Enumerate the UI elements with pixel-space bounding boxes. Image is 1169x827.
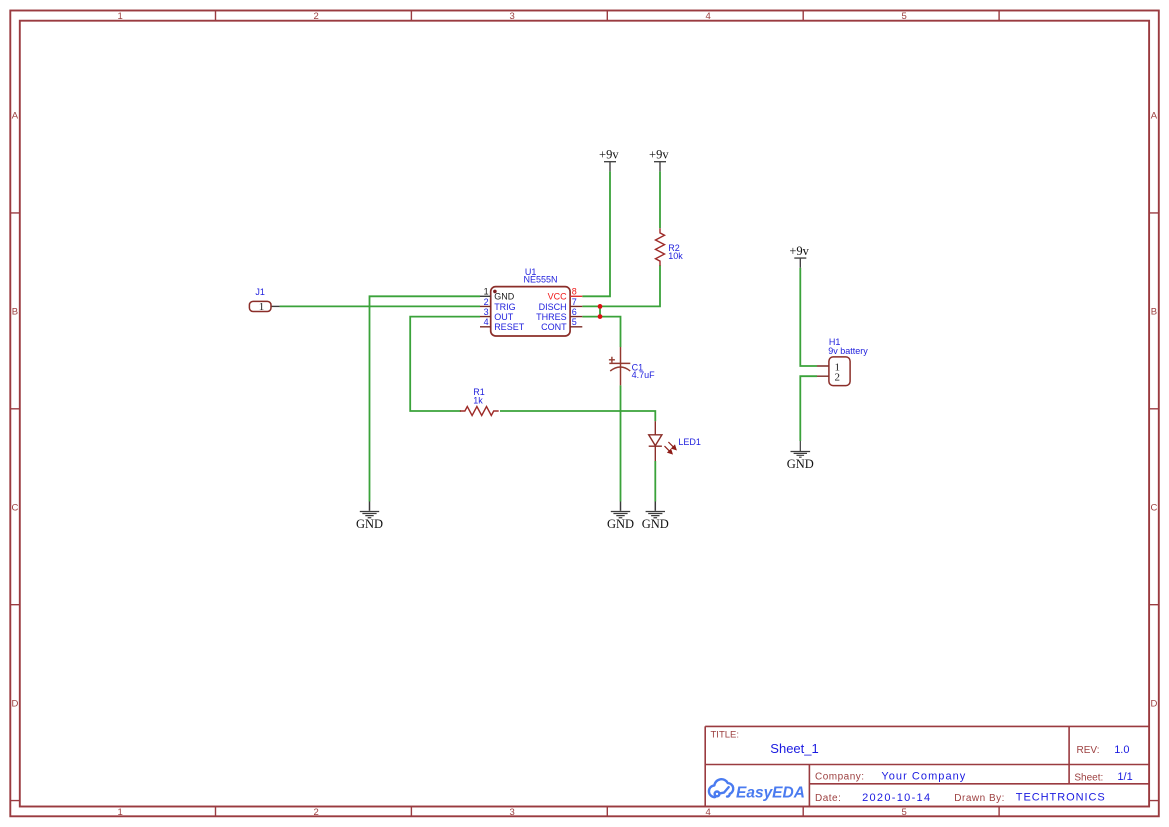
svg-text:Sheet:: Sheet:: [1074, 773, 1103, 784]
svg-text:B: B: [12, 306, 18, 317]
svg-text:A: A: [12, 110, 19, 121]
svg-text:C: C: [11, 502, 18, 513]
svg-text:Your Company: Your Company: [881, 771, 966, 783]
svg-text:Company:: Company:: [815, 772, 865, 783]
svg-text:GND: GND: [787, 457, 814, 471]
svg-text:A: A: [1151, 110, 1158, 121]
svg-text:Drawn By:: Drawn By:: [954, 793, 1005, 804]
svg-text:J1: J1: [255, 287, 265, 297]
svg-text:10k: 10k: [668, 251, 683, 261]
svg-text:2: 2: [834, 372, 840, 384]
svg-text:LED1: LED1: [678, 437, 701, 447]
svg-text:TRIG: TRIG: [494, 302, 516, 312]
svg-text:2: 2: [314, 807, 319, 818]
svg-text:+9v: +9v: [599, 148, 619, 162]
svg-text:2020-10-14: 2020-10-14: [862, 792, 931, 804]
svg-text:THRES: THRES: [536, 312, 567, 322]
svg-text:1: 1: [484, 287, 489, 297]
svg-text:1/1: 1/1: [1117, 771, 1132, 783]
svg-text:1: 1: [118, 807, 123, 818]
svg-text:B: B: [1151, 306, 1157, 317]
svg-text:6: 6: [572, 307, 577, 317]
svg-text:5: 5: [572, 317, 577, 327]
svg-text:CONT: CONT: [541, 322, 567, 332]
svg-text:TITLE:: TITLE:: [711, 730, 740, 741]
svg-text:1.0: 1.0: [1114, 744, 1129, 756]
svg-text:D: D: [11, 698, 18, 709]
svg-text:C: C: [1150, 502, 1157, 513]
svg-text:1: 1: [259, 301, 265, 313]
svg-text:Date:: Date:: [815, 793, 841, 804]
svg-text:3: 3: [484, 307, 489, 317]
svg-text:2: 2: [484, 297, 489, 307]
svg-text:DISCH: DISCH: [539, 302, 567, 312]
svg-text:1: 1: [118, 11, 123, 22]
svg-text:4.7uF: 4.7uF: [632, 370, 656, 380]
svg-text:4: 4: [484, 317, 489, 327]
svg-text:8: 8: [572, 287, 577, 297]
svg-text:OUT: OUT: [494, 312, 514, 322]
svg-text:GND: GND: [607, 517, 634, 531]
svg-text:3: 3: [510, 11, 515, 22]
svg-text:D: D: [1150, 698, 1157, 709]
svg-text:Sheet_1: Sheet_1: [770, 741, 818, 756]
svg-text:GND: GND: [494, 292, 515, 302]
svg-text:NE555N: NE555N: [524, 275, 558, 285]
svg-text:EasyEDA: EasyEDA: [736, 785, 805, 802]
svg-text:1k: 1k: [473, 396, 483, 406]
svg-text:5: 5: [902, 807, 907, 818]
svg-text:5: 5: [902, 11, 907, 22]
svg-text:+9v: +9v: [789, 244, 809, 258]
svg-text:TECHTRONICS: TECHTRONICS: [1016, 791, 1106, 803]
svg-text:4: 4: [706, 11, 711, 22]
svg-text:GND: GND: [356, 517, 383, 531]
svg-text:REV:: REV:: [1077, 745, 1100, 756]
svg-text:2: 2: [314, 11, 319, 22]
svg-text:RESET: RESET: [494, 322, 525, 332]
svg-text:GND: GND: [642, 517, 669, 531]
svg-text:VCC: VCC: [548, 292, 568, 302]
svg-text:3: 3: [510, 807, 515, 818]
svg-text:4: 4: [706, 807, 711, 818]
svg-text:7: 7: [572, 297, 577, 307]
svg-text:9v battery: 9v battery: [828, 346, 868, 356]
svg-text:+9v: +9v: [649, 148, 669, 162]
